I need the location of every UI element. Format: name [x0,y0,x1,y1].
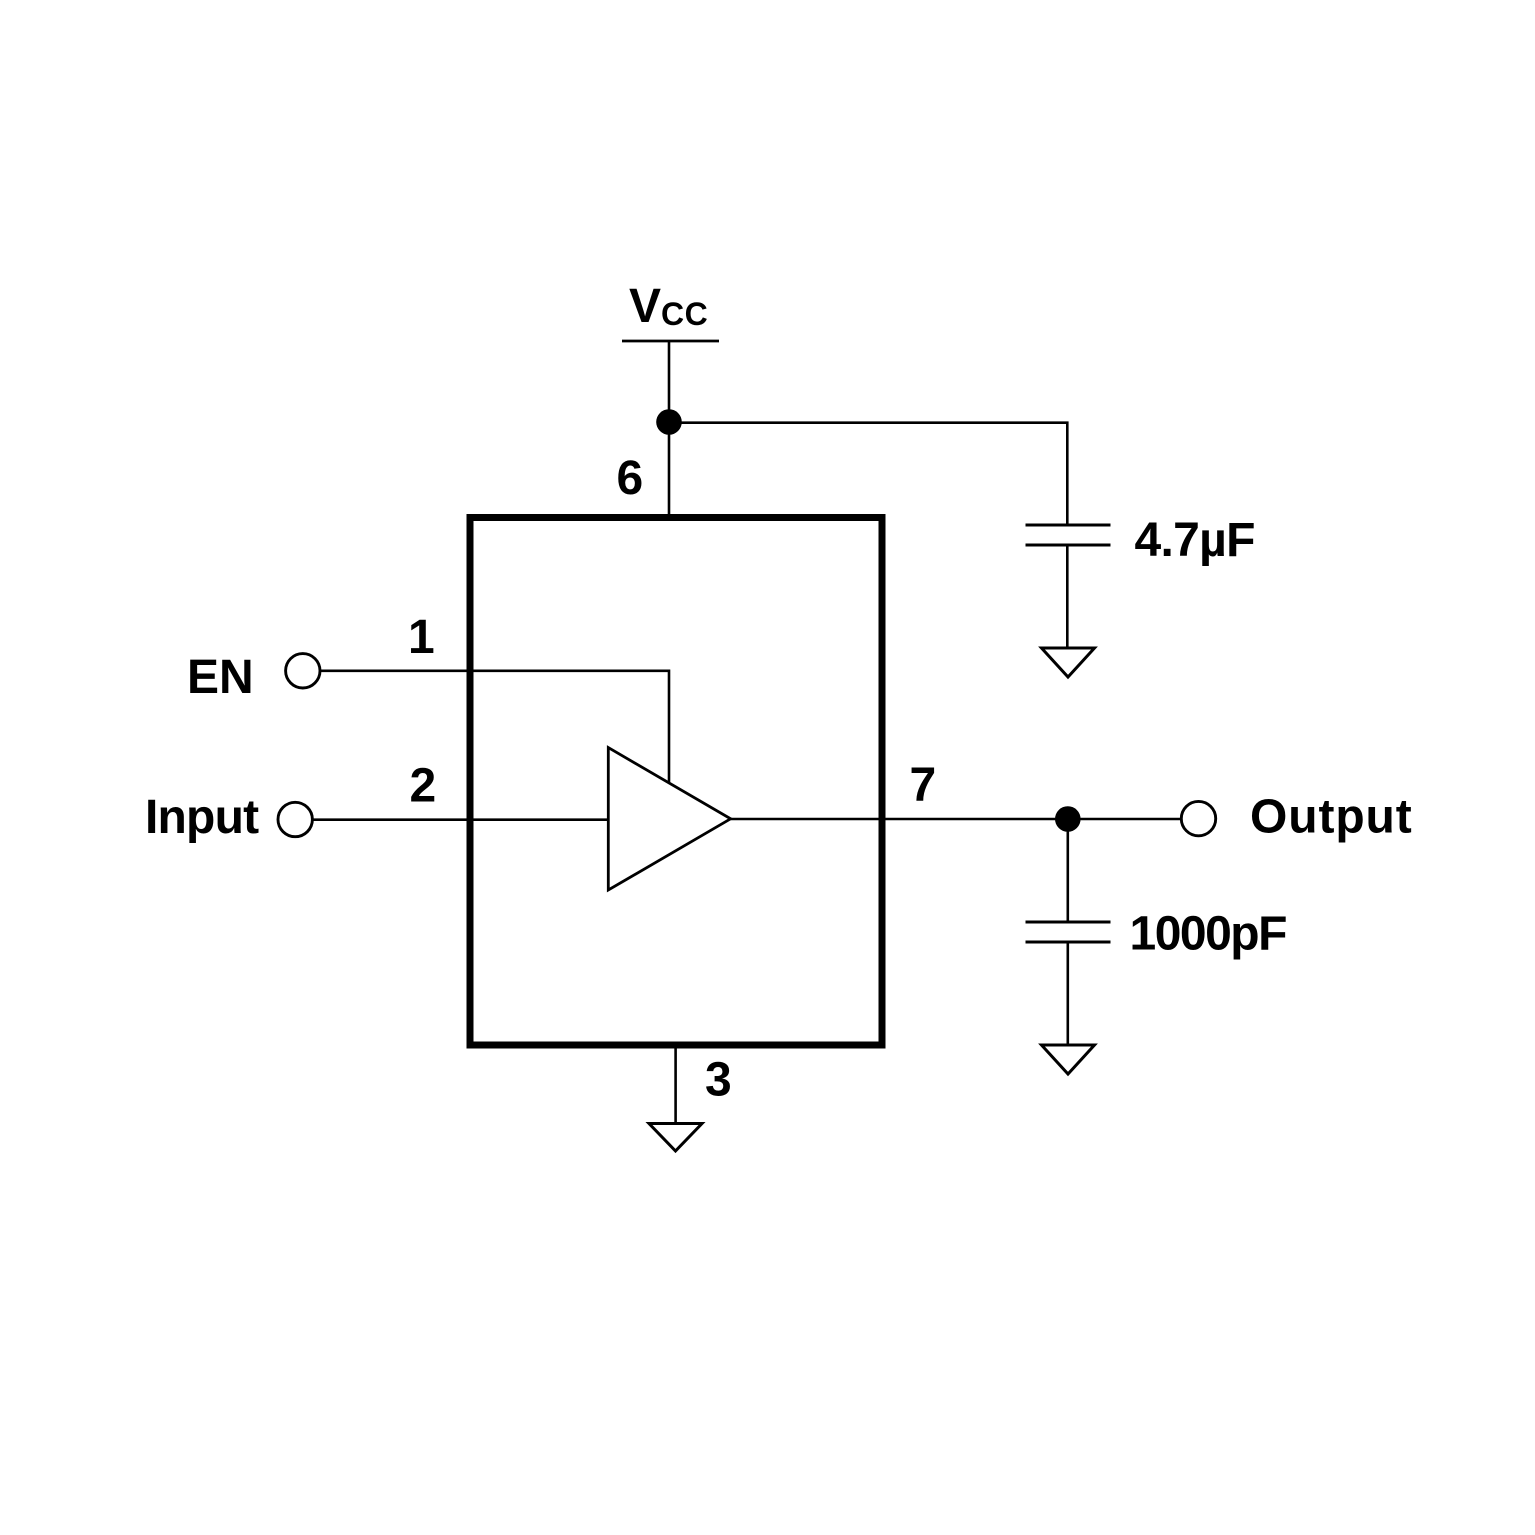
capacitor C2 1000pF plates [1026,921,1111,924]
terminal EN circle [286,654,320,688]
node junction VCC [656,409,682,435]
svg-text:1000pF: 1000pF [1130,908,1287,961]
wire C2 to ground [1067,944,1070,1046]
ground symbol below C2 [1042,1045,1095,1074]
svg-text:6: 6 [617,452,644,505]
svg-text:2: 2 [410,759,437,812]
terminal Output circle [1181,801,1215,835]
node junction output [1055,806,1081,832]
svg-text:Input: Input [145,791,259,844]
svg-text:4.7µF: 4.7µF [1135,514,1255,567]
wire output junction to C2 [1067,819,1070,923]
svg-text:3: 3 [705,1054,732,1107]
svg-text:EN: EN [187,651,254,704]
IC box U1 [470,518,882,1046]
power symbol VCC bar [622,340,719,343]
wire VCC junction to C1 [669,423,1067,526]
capacitor C1 4.7uF plates [1026,524,1111,527]
svg-text:7: 7 [910,759,937,812]
buffer amplifier triangle [608,748,730,890]
ground symbol below IC [649,1124,702,1152]
wire C1 to ground [1066,547,1069,649]
ground symbol below C1 [1042,648,1095,677]
wire pin 3 to ground [674,1049,677,1125]
terminal Input circle [278,802,312,836]
svg-text:1: 1 [408,611,435,664]
wire buffer output to Output terminal [731,818,1181,821]
svg-text:Output: Output [1250,791,1413,844]
wire VCC bar to pin 6 [668,341,671,517]
wire Input to buffer [313,818,608,821]
wire EN to buffer enable [321,671,670,782]
